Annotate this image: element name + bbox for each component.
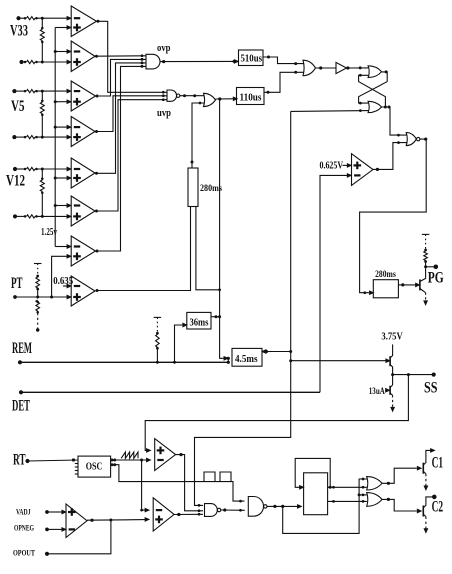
PT pull-up current source (34, 264, 42, 298)
wire FF1 toggle feedback loop (295, 458, 331, 489)
comparator U5 (V12 ovp) (71, 158, 95, 188)
wire SS to PWM comparator (145, 375, 408, 447)
V12 ovp sense input (13, 167, 71, 171)
wire ovp gate inputs (141, 58, 144, 68)
wire N2 output to N3 (221, 508, 245, 511)
wire N3 output to flip-flop (267, 505, 301, 508)
comparator U4 (V5 uvp) (71, 117, 95, 147)
svg-text:PT: PT (11, 275, 23, 292)
wire B1 to latch (346, 66, 368, 69)
wire 280ms bottom to PT comparator line (96, 207, 191, 292)
block 110us (237, 88, 265, 105)
uvp NOR gate G2 (167, 90, 180, 101)
wire PT node to U7 plus input (52, 255, 71, 297)
V33 ovp sense input (16, 16, 70, 20)
wire U11 output to N2 (174, 513, 203, 516)
wire 36ms output to bus (211, 315, 220, 318)
wire uvp output to G3 (180, 94, 204, 97)
comparator U6 (V12 uvp) (71, 196, 95, 226)
comparator U7 (1.25v) (71, 236, 95, 266)
SR latch gate G6 (368, 101, 382, 112)
svg-text:OPNEG: OPNEG (14, 524, 34, 533)
label 0.635 reference (53, 276, 73, 288)
svg-text:ovp: ovp (157, 43, 171, 54)
svg-text:280ms: 280ms (375, 270, 396, 280)
wire 3.75V supply to Q2 (392, 344, 394, 353)
wire FF1 Q to G7 (328, 486, 367, 489)
transistor Q2 (SS charge) (390, 353, 393, 375)
wire U2 output to ovp gate (95, 54, 146, 57)
label 13uA (369, 386, 390, 396)
wire U1 output to uvp gate (97, 20, 167, 94)
block 4.5ms (232, 348, 262, 366)
output gate G8 (367, 493, 382, 507)
block 280ms delay (vertical) (188, 168, 198, 207)
comparator U10 (PWM A) (155, 439, 176, 471)
wire G3 output to 110us (216, 97, 238, 100)
output gate G7 (367, 477, 382, 490)
svg-text:4.5ms: 4.5ms (235, 354, 258, 365)
V33 uvp sense input (19, 60, 70, 64)
svg-text:VADJ: VADJ (16, 508, 31, 517)
svg-text:REM: REM (12, 340, 32, 357)
svg-text:C2: C2 (432, 499, 444, 516)
wire N3 branch to output gates (283, 478, 367, 534)
flip-flop box FF1 (304, 473, 328, 515)
svg-text:OPOUT: OPOUT (13, 549, 36, 558)
sawtooth waveform symbol (121, 452, 138, 458)
block 510us (239, 50, 264, 66)
svg-text:0.625V: 0.625V (320, 160, 344, 171)
wire U7 output to ovp gate (96, 65, 146, 252)
label 0.625V (320, 160, 352, 171)
svg-text:SS: SS (424, 379, 438, 396)
PG output pin (424, 265, 438, 270)
divider resistor R2 (V5) (40, 91, 44, 137)
transistor Q1 (PG) (420, 267, 427, 305)
wire latch cross coupling (359, 70, 388, 107)
wire U4 output to uvp gate (95, 94, 167, 133)
wire REM line junction to 4.5ms (227, 357, 230, 364)
wire ramp to PWM2 comparator (140, 460, 149, 512)
wire bus to latch G6 input (291, 109, 369, 112)
pulse waveform symbol (204, 472, 231, 482)
svg-text:110us: 110us (240, 93, 262, 104)
svg-text:PG: PG (428, 269, 444, 286)
wire U5 output to ovp gate (95, 62, 146, 175)
block 36ms (187, 312, 211, 329)
comparator U8 (PT) (71, 276, 95, 306)
wire REM to 36ms input (173, 323, 186, 363)
svg-text:DET: DET (12, 397, 30, 414)
REM input line (18, 360, 228, 364)
PT input line (13, 295, 71, 299)
wire soft-start bus to 4.5ms input (262, 350, 292, 353)
wire G7 to Q3 base (382, 467, 421, 485)
transistor Q3 (C1) (423, 449, 434, 490)
wire U3 output to ovp gate (96, 58, 146, 97)
oscillator block OSC (75, 456, 111, 477)
wire U12 output to U11 (87, 518, 149, 522)
svg-text:C1: C1 (432, 455, 444, 472)
comparator U3 (V5 ovp) (71, 81, 95, 111)
comparator U9 (0.625V) (352, 154, 374, 186)
wire 280ms to Q1 base (398, 283, 419, 286)
wire U10 output to N2 (176, 453, 203, 512)
wire U9 output to N1 (373, 141, 407, 171)
svg-text:280ms: 280ms (200, 184, 222, 194)
wire 110us output to G4 (264, 71, 304, 94)
PT pull-down resistor to ground (36, 300, 40, 332)
OPOUT line (45, 520, 111, 556)
wire N1 output to 280ms PG block (360, 137, 428, 294)
V5 ovp sense input (12, 89, 70, 93)
node VREF rail (54, 26, 71, 248)
op-amp U12 (66, 504, 87, 538)
V5 uvp sense input (12, 135, 70, 139)
comparator U1 (V33 ovp) (71, 6, 96, 37)
wire Q2 base from bus (289, 359, 389, 362)
VADJ input (45, 510, 65, 514)
NOR gate N2 (205, 504, 221, 517)
OPNEG input (45, 528, 65, 532)
svg-text:V12: V12 (6, 172, 25, 189)
transistor Q4 (C2) (423, 495, 436, 533)
DET input line (19, 390, 320, 394)
ovp OR gate G1 (146, 54, 160, 69)
NAND gate N3 (248, 497, 267, 517)
divider resistor R1 (V33) (40, 18, 44, 62)
svg-text:uvp: uvp (157, 108, 171, 119)
V12 uvp sense input (13, 214, 71, 218)
buffer B1 (316, 62, 347, 73)
wire U6 output to uvp gate (95, 98, 167, 212)
block 280ms PG delay (373, 280, 398, 298)
divider resistor R3 (V12) (40, 169, 44, 216)
wire FF1 Qbar to G8 (328, 500, 367, 503)
svg-text:OSC: OSC (86, 460, 103, 472)
svg-text:36ms: 36ms (190, 317, 209, 328)
node bus to 4.5ms (218, 99, 228, 360)
wire 510us output to G4 (263, 56, 304, 66)
RT input line (25, 458, 78, 463)
current source 13uA (390, 375, 394, 411)
OSC ramp output to PWM comparator (111, 458, 151, 461)
NOR gate N1 (406, 133, 420, 146)
OR gate G3 (204, 93, 216, 106)
wire G8 to Q4 base (382, 498, 421, 513)
OR gate G4 (303, 60, 316, 75)
svg-text:3.75V: 3.75V (381, 331, 403, 342)
svg-text:V5: V5 (11, 98, 25, 115)
REM pull-up current source (154, 317, 162, 362)
svg-text:510us: 510us (241, 54, 263, 65)
wire soft-start bus vertical (195, 111, 291, 506)
wire G6 output to N1 (382, 106, 407, 137)
svg-text:13uA: 13uA (369, 386, 385, 396)
OSC clock output to pulse line (111, 463, 245, 502)
PG pull-up resistor to supply (422, 234, 430, 266)
comparator U2 (V33 uvp) (71, 41, 95, 72)
svg-text:RT: RT (13, 451, 26, 468)
wire DET to U9 minus input (320, 174, 351, 393)
wire 280ms delay to G3 input (191, 102, 205, 168)
wire ovp output to 510us (160, 60, 238, 63)
svg-text:V33: V33 (10, 22, 28, 39)
SR latch gate G5 (368, 66, 382, 78)
comparator U11 (PWM B) (153, 498, 174, 531)
SS output line and pin (391, 373, 436, 377)
svg-text:1.25v: 1.25v (41, 227, 57, 238)
wire 280ms bottom to 4.5ms bus (196, 207, 220, 290)
